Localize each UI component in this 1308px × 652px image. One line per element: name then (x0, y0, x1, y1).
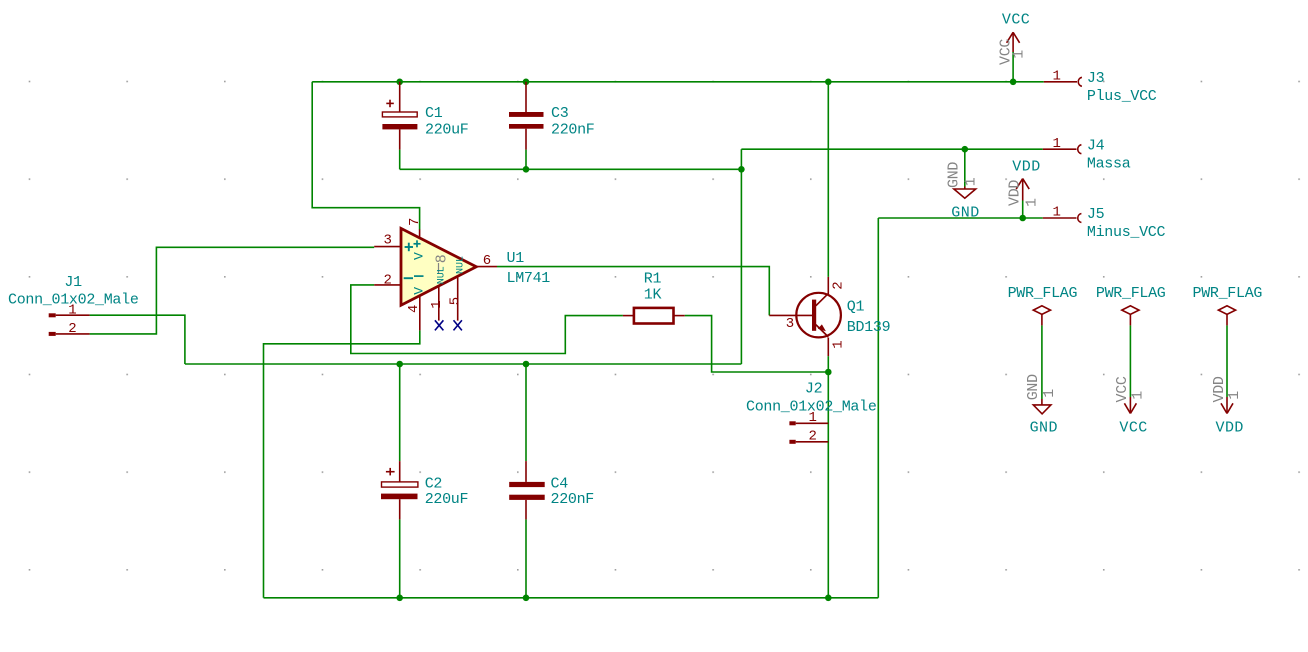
power symbol VCC (998, 11, 1031, 65)
wire mid GND rail (185, 363, 742, 365)
pin 1 (49, 313, 56, 317)
wire op-amp pin2 feedback (351, 285, 623, 354)
svg-text:1: 1 (1011, 50, 1028, 59)
svg-text:220uF: 220uF (425, 122, 469, 139)
pin 2 (49, 332, 56, 336)
junction C2 bottom (396, 595, 403, 602)
wire VDD symbol stem (1022, 201, 1024, 219)
svg-text:Q1: Q1 (847, 299, 865, 316)
svg-text:R1: R1 (644, 270, 662, 287)
junction Q1 emitter (825, 369, 832, 376)
base bar (812, 300, 816, 331)
svg-text:V: V (412, 287, 427, 295)
wire J5 net (878, 217, 1043, 219)
svg-text:J4: J4 (1087, 137, 1105, 154)
svg-text:Plus_VCC: Plus_VCC (1087, 88, 1157, 105)
junction C1 top (396, 79, 403, 86)
junction C2 top (396, 361, 403, 368)
junction C4 top (523, 361, 530, 368)
svg-text:2: 2 (68, 321, 76, 337)
svg-text:4: 4 (406, 305, 422, 313)
svg-text:PWR_FLAG: PWR_FLAG (1096, 285, 1166, 302)
wire C3 bottom to GND rail (525, 150, 527, 170)
connector J5 (1043, 205, 1166, 242)
connector J1 (8, 274, 139, 337)
svg-text:PWR_FLAG: PWR_FLAG (1008, 285, 1078, 302)
junction J2 at bottom rail (825, 595, 832, 602)
svg-text:J3: J3 (1087, 70, 1105, 87)
power symbol VDD (1007, 159, 1041, 208)
svg-text:LM741: LM741 (507, 270, 551, 287)
capacitor C2 (381, 461, 468, 519)
svg-text:2: 2 (809, 429, 817, 445)
minus input mark (404, 277, 413, 279)
pin 5 (457, 277, 459, 320)
svg-text:8: 8 (434, 254, 451, 263)
wire J1 pin2 to op-amp pin3 (90, 247, 375, 334)
junction VCC symbol (1010, 79, 1017, 86)
svg-text:J1: J1 (64, 274, 82, 291)
svg-text:GND: GND (1025, 374, 1042, 400)
wire PWR_FLAG3 stem (1226, 325, 1228, 397)
wire VCC rail left drop to op-amp V+ (312, 82, 419, 230)
pin 4 (419, 297, 421, 331)
connector J4 (1043, 136, 1131, 173)
PWR_FLAG 2 (VCC) (1096, 285, 1166, 436)
svg-text:1K: 1K (644, 287, 662, 304)
svg-text:3: 3 (384, 233, 392, 249)
svg-text:VDD: VDD (1012, 159, 1040, 176)
pin 3 (374, 246, 401, 248)
wire C4 top to mid rail (525, 364, 527, 461)
svg-text:2: 2 (831, 281, 847, 289)
svg-text:1: 1 (1053, 68, 1061, 84)
svg-text:220nF: 220nF (551, 491, 595, 508)
junction C3 bottom (523, 166, 530, 173)
svg-text:2: 2 (384, 272, 392, 288)
pin 7 (419, 229, 421, 238)
svg-text:GND: GND (946, 162, 963, 188)
svg-text:1: 1 (68, 302, 76, 318)
svg-text:1: 1 (1053, 136, 1061, 152)
emitter (816, 325, 829, 337)
svg-text:VCC: VCC (1119, 420, 1147, 437)
connector J3 (1044, 68, 1157, 105)
svg-text:1: 1 (831, 340, 847, 348)
svg-text:220nF: 220nF (551, 122, 595, 139)
junction GND symbol (962, 146, 969, 153)
capacitor C4 (509, 461, 594, 519)
svg-text:1: 1 (1129, 391, 1146, 400)
svg-text:J2: J2 (805, 381, 822, 398)
no-connect X pin 1 (435, 320, 444, 330)
svg-text:GND: GND (951, 205, 979, 222)
svg-text:1: 1 (1041, 389, 1058, 398)
svg-text:VDD: VDD (1216, 420, 1244, 437)
junction VDD symbol (1019, 215, 1026, 222)
svg-text:C3: C3 (551, 105, 569, 122)
svg-text:C4: C4 (551, 475, 569, 492)
wire Q1 collector to VCC rail (827, 82, 829, 277)
svg-text:7: 7 (407, 218, 423, 226)
svg-text:Minus_VCC: Minus_VCC (1087, 224, 1166, 241)
svg-text:VDD: VDD (1007, 180, 1024, 206)
pin 1 (789, 421, 795, 425)
wire PWR_FLAG2 stem (1129, 325, 1131, 397)
wire Q1 emitter down through J2 to bottom rail (827, 356, 829, 598)
op-amp U1 (374, 218, 550, 331)
capacitor C3 (509, 82, 595, 150)
wire C4 bottom to rail (525, 519, 527, 597)
wire GND rail down to mid rail (740, 169, 742, 364)
power symbol GND (946, 162, 980, 222)
junction C3 top (523, 79, 530, 86)
svg-text:6: 6 (483, 253, 491, 269)
wire bottom rail up to J5 (877, 218, 879, 598)
svg-text:J5: J5 (1087, 206, 1105, 223)
wire PWR_FLAG1 stem (1041, 325, 1043, 399)
svg-text:5: 5 (448, 297, 464, 305)
svg-text:1: 1 (429, 300, 445, 308)
plus input mark (405, 243, 413, 252)
PWR_FLAG 3 (VDD) (1193, 285, 1263, 436)
wire R1 right to Q1 emitter junction (685, 316, 829, 372)
svg-text:1: 1 (1053, 205, 1061, 221)
wire C2 bottom to rail (399, 519, 401, 597)
PWR_FLAG 1 (GND) (1008, 285, 1078, 436)
svg-text:BD139: BD139 (847, 319, 891, 336)
wire J1 pin1 to mid rail (90, 315, 185, 364)
svg-text:C1: C1 (425, 105, 443, 122)
svg-text:V: V (412, 252, 427, 260)
svg-text:NUL: NUL (456, 256, 467, 274)
svg-text:U1: U1 (507, 250, 525, 267)
svg-text:Massa: Massa (1087, 155, 1131, 172)
transistor Q1 (769, 277, 890, 356)
capacitor C1 (382, 82, 468, 150)
wire C1 bottom to GND rail (399, 150, 401, 170)
svg-text:NUL: NUL (437, 266, 448, 284)
wire C2 top to mid rail (399, 364, 401, 461)
collector (816, 293, 829, 306)
no-connect X pin 5 (454, 320, 462, 330)
connector J2 (746, 381, 877, 445)
svg-text:220uF: 220uF (425, 491, 469, 508)
wire Massa net to J4 (741, 148, 1042, 150)
base pin (769, 314, 812, 316)
svg-text:C2: C2 (425, 475, 442, 492)
svg-text:3: 3 (786, 316, 794, 332)
pin 1 (438, 287, 440, 321)
junction GND rail corner (738, 166, 745, 173)
wire op-amp pin4 to bottom rail (264, 330, 420, 597)
pin 6 (476, 266, 497, 268)
svg-text:GND: GND (1030, 420, 1058, 437)
svg-text:PWR_FLAG: PWR_FLAG (1193, 285, 1263, 302)
resistor R1 (623, 270, 685, 323)
junction C4 bottom (523, 595, 530, 602)
wire GND symbol stem (964, 149, 966, 186)
wire GND rail (400, 168, 742, 170)
wire bottom V- rail (264, 597, 879, 599)
pin 2 (374, 284, 401, 286)
svg-text:VCC: VCC (1002, 11, 1030, 28)
junction Q1 collector at VCC rail (825, 79, 832, 86)
svg-text:1: 1 (1226, 391, 1243, 400)
pin 2 (789, 440, 795, 444)
wire VCC top rail (312, 81, 1044, 83)
wire VCC symbol stem (1012, 52, 1014, 82)
wire GND rail up to Massa wire (740, 149, 742, 169)
svg-text:1: 1 (963, 177, 980, 186)
wire op-amp output to Q1 base (497, 267, 769, 316)
svg-text:1: 1 (809, 410, 817, 426)
svg-text:1: 1 (1024, 198, 1041, 207)
